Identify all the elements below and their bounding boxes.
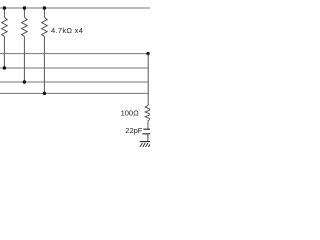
wire capacitor to ground bbox=[147, 134, 149, 142]
wire bus line 3 bbox=[0, 67, 148, 69]
resistor R3 bbox=[42, 8, 48, 93]
wire bus line 2 bbox=[0, 53, 148, 55]
wire top supply rail bbox=[0, 7, 150, 9]
svg-text:100Ω: 100Ω bbox=[121, 109, 140, 118]
ground bbox=[140, 142, 155, 147]
resistor R4 100Ω bbox=[145, 105, 151, 129]
node junction dot R3-line5 bbox=[43, 92, 46, 95]
wire right vertical drop bbox=[147, 54, 149, 106]
node junction dot R2-line4 bbox=[23, 80, 26, 83]
capacitor C1 22pF bbox=[142, 129, 153, 134]
wire bus line 4 bbox=[0, 81, 148, 83]
resistor R1 bbox=[2, 8, 8, 68]
node junction dot R1-line3 bbox=[3, 66, 6, 69]
node junction dot rail-R1 bbox=[3, 6, 6, 9]
svg-text:4.7kΩ x4: 4.7kΩ x4 bbox=[51, 26, 83, 35]
svg-text:22pF: 22pF bbox=[125, 126, 143, 135]
node junction dot rail-R2 bbox=[23, 6, 26, 9]
node junction dot rail-R3 bbox=[43, 6, 46, 9]
wire bus line 5 bbox=[0, 92, 148, 94]
node junction dot line2-right vertical bbox=[146, 52, 149, 55]
resistor R2 bbox=[22, 8, 28, 82]
